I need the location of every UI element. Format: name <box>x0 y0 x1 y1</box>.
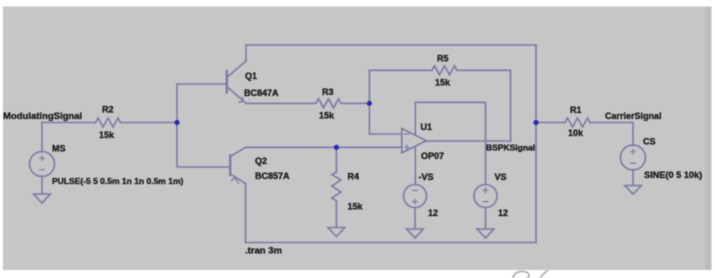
wire CS to ground <box>632 170 634 186</box>
wire R1 to CarrierSignal <box>590 122 633 124</box>
voltage source MS <box>30 152 55 177</box>
svg-text:MS: MS <box>52 144 66 154</box>
svg-text:R1: R1 <box>570 105 582 115</box>
svg-text:OP07: OP07 <box>421 151 444 161</box>
wire Q2 top to node C <box>246 146 337 148</box>
wire -VS to ground <box>414 208 416 229</box>
svg-text:ModulatingSignal: ModulatingSignal <box>3 111 82 122</box>
wire Q2 bottom to bottom rail <box>245 184 247 243</box>
svg-text:R4: R4 <box>348 172 360 182</box>
wire node D to R1 <box>536 122 565 124</box>
watermark remnant <box>513 270 548 278</box>
svg-text:Q1: Q1 <box>245 71 257 81</box>
node C junction <box>334 145 339 150</box>
wire R3 to node B <box>341 102 369 104</box>
wire CarrierSignal down to CS <box>632 123 634 146</box>
wire op-amp output <box>426 140 510 142</box>
svg-text:15k: 15k <box>348 202 364 212</box>
wire right vertical (collector net) <box>535 45 537 243</box>
wire R5 left lead <box>369 69 432 71</box>
ground below R4 <box>328 228 345 237</box>
svg-text:R2: R2 <box>102 105 114 115</box>
wire R5 right lead <box>457 69 511 71</box>
node A junction <box>174 120 179 125</box>
wire Q1 emitter to R3 <box>246 102 316 104</box>
svg-text:PULSE(-5 5 0.5m 1n 1n 0.5m 1m): PULSE(-5 5 0.5m 1n 1n 0.5m 1m) <box>52 176 183 186</box>
svg-text:SINE(0 5 10k): SINE(0 5 10k) <box>644 170 702 180</box>
wire op-amp V+ pin to VS <box>415 102 485 184</box>
svg-text:VS: VS <box>495 172 507 182</box>
wire R5 to op-amp output <box>510 70 512 141</box>
ground below VS <box>477 229 494 238</box>
svg-text:CarrierSignal: CarrierSignal <box>605 111 662 121</box>
svg-text:CS: CS <box>643 137 656 147</box>
op-amp U1 <box>402 129 426 153</box>
transistor Q1 <box>227 61 246 103</box>
svg-text:BC857A: BC857A <box>255 171 290 181</box>
wire R4 to ground <box>335 201 337 227</box>
wire node C down to R4 <box>335 147 337 172</box>
svg-text:Q2: Q2 <box>255 156 267 166</box>
wire op-amp V- pin to -VS <box>414 146 416 184</box>
svg-text:-VS: -VS <box>419 172 434 182</box>
resistor R2 <box>96 118 121 127</box>
svg-text:R3: R3 <box>322 87 334 97</box>
wire Q1 collector to top rail <box>245 45 247 61</box>
voltage source CS <box>621 145 646 170</box>
resistor R1 <box>565 118 590 127</box>
svg-text:15k: 15k <box>99 130 115 140</box>
node B junction <box>367 101 372 106</box>
svg-text:BSPKSignal: BSPKSignal <box>486 143 535 153</box>
transistor Q2 <box>230 147 245 183</box>
wire top rail <box>246 44 536 46</box>
svg-text:15k: 15k <box>319 111 335 121</box>
resistor R5 <box>432 66 457 75</box>
wire bottom rail <box>246 242 537 244</box>
wire node A to Q1 base <box>177 84 227 123</box>
svg-text:.tran 3m: .tran 3m <box>245 245 282 256</box>
wire MS to ground <box>41 176 43 194</box>
svg-text:12: 12 <box>428 208 438 218</box>
resistor R4 <box>332 172 341 201</box>
svg-text:BC847A: BC847A <box>244 88 279 98</box>
wire VS to ground <box>485 208 487 229</box>
svg-text:10k: 10k <box>568 128 584 138</box>
wire node C to op-amp non-inverting input <box>336 146 401 148</box>
wire MS top lead <box>41 123 43 153</box>
wire R2 to node A <box>121 122 178 124</box>
svg-text:U1: U1 <box>421 122 433 132</box>
svg-text:15k: 15k <box>435 78 451 88</box>
resistor R3 <box>316 99 341 108</box>
wire node B to op-amp inverting input <box>369 103 401 134</box>
svg-text:R5: R5 <box>437 54 449 64</box>
wire node A to Q2 base <box>177 123 230 168</box>
voltage source VS <box>474 185 497 208</box>
ground below CS <box>625 186 642 195</box>
ground below MS <box>34 194 51 203</box>
wire ModulatingSignal to R2 <box>42 122 96 124</box>
ground below -VS <box>407 229 424 238</box>
svg-text:12: 12 <box>498 208 508 218</box>
voltage source -VS <box>404 185 427 208</box>
node D junction <box>533 120 538 125</box>
wire node B up to R5 <box>368 70 370 103</box>
